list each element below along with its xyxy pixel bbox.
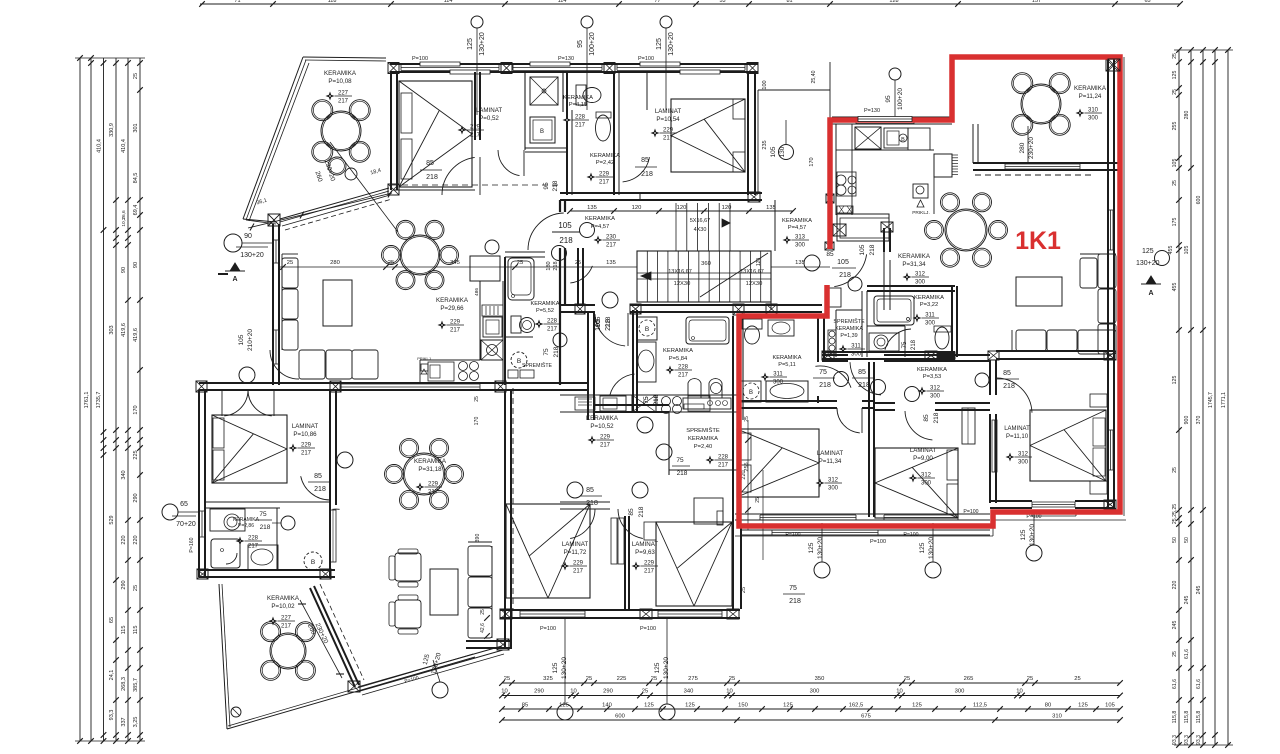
kitchen top wall 1K1 bbox=[832, 116, 952, 118]
post terrace-bl-1 bbox=[348, 681, 360, 692]
boiler B P511 bbox=[741, 381, 761, 402]
svg-text:218: 218 bbox=[553, 346, 560, 357]
vanity P584 bbox=[683, 398, 731, 409]
bath bl walls bbox=[205, 501, 280, 503]
svg-text:KERAMIKA: KERAMIKA bbox=[585, 216, 615, 222]
cab 1K1 bbox=[837, 206, 853, 213]
leader 125/130+20 n3 bbox=[660, 16, 672, 28]
svg-text:P=10,08: P=10,08 bbox=[328, 78, 352, 85]
svg-text:P=100: P=100 bbox=[785, 532, 800, 538]
shower 1K1 bbox=[874, 296, 914, 325]
svg-text:65: 65 bbox=[109, 617, 115, 623]
svg-text:229: 229 bbox=[600, 435, 611, 441]
svg-text:229: 229 bbox=[644, 561, 655, 567]
svg-text:228: 228 bbox=[547, 319, 558, 325]
svg-text:P=10,54: P=10,54 bbox=[656, 116, 680, 123]
svg-text:3,25: 3,25 bbox=[133, 717, 139, 728]
boiler B left bbox=[511, 352, 527, 368]
flooring 228/217 bath-left bbox=[535, 320, 544, 329]
east setback thin lines bbox=[758, 89, 830, 91]
stair outline bbox=[637, 251, 771, 302]
toilet left apt bbox=[511, 316, 521, 333]
prik 1K1 bbox=[913, 184, 928, 198]
svg-text:217: 217 bbox=[575, 123, 586, 129]
sink P511 bbox=[768, 320, 794, 336]
flooring 229/217 bc-living bbox=[416, 483, 425, 492]
svg-text:218: 218 bbox=[605, 316, 612, 327]
terrace bl diag wall bbox=[310, 588, 355, 687]
toilet bath-tm bbox=[576, 85, 586, 105]
svg-text:245: 245 bbox=[1184, 596, 1190, 605]
svg-text:419,6: 419,6 bbox=[133, 328, 139, 342]
svg-text:300: 300 bbox=[955, 689, 965, 695]
red outline 1K1 apartment bbox=[739, 57, 1120, 526]
svg-text:69,4: 69,4 bbox=[133, 205, 139, 216]
svg-text:114: 114 bbox=[444, 0, 453, 4]
dining table bc bbox=[403, 453, 445, 495]
svg-text:130+20: 130+20 bbox=[240, 252, 264, 259]
svg-text:120: 120 bbox=[632, 205, 642, 211]
window north 1 (P=100) bbox=[401, 64, 499, 66]
door bedA bbox=[837, 408, 860, 433]
svg-text:25: 25 bbox=[480, 609, 486, 615]
svg-text:P=160: P=160 bbox=[189, 537, 195, 552]
svg-text:P=2,86: P=2,86 bbox=[238, 523, 254, 529]
svg-text:135: 135 bbox=[606, 260, 616, 266]
svg-text:P=100: P=100 bbox=[540, 626, 556, 632]
wall bedA top bbox=[737, 400, 837, 402]
svg-text:KERAMIKA: KERAMIKA bbox=[414, 458, 447, 465]
svg-text:125: 125 bbox=[685, 703, 695, 709]
svg-text:KERAMIKA: KERAMIKA bbox=[531, 301, 560, 307]
flooring 229/217 bl-bed bbox=[289, 444, 298, 453]
svg-text:218: 218 bbox=[641, 171, 653, 178]
left dimension block bbox=[79, 58, 81, 741]
svg-text:90: 90 bbox=[244, 233, 252, 240]
dining table left apt bbox=[400, 235, 440, 275]
svg-text:61,6: 61,6 bbox=[1184, 649, 1190, 659]
svg-text:486: 486 bbox=[474, 288, 480, 296]
bed bedroom1 bbox=[399, 81, 472, 187]
sofa bl bbox=[468, 546, 492, 576]
coffee table left apt bbox=[323, 280, 352, 326]
svg-text:71: 71 bbox=[234, 0, 240, 4]
svg-text:218: 218 bbox=[260, 524, 271, 531]
svg-text:105: 105 bbox=[1105, 703, 1115, 709]
svg-text:P=9,00: P=9,00 bbox=[913, 455, 933, 462]
svg-text:325: 325 bbox=[543, 676, 553, 682]
svg-text:105: 105 bbox=[558, 221, 572, 230]
svg-text:225: 225 bbox=[617, 676, 627, 682]
svg-text:229: 229 bbox=[428, 482, 439, 488]
svg-text:410,4: 410,4 bbox=[121, 139, 127, 153]
svg-text:LAMINAT: LAMINAT bbox=[817, 450, 844, 457]
terrace bl window band bbox=[358, 646, 502, 687]
flooring 313/300 hall-right bbox=[783, 236, 792, 245]
flooring 230/217 hall-left bbox=[594, 236, 603, 245]
flooring 228/217 bc-spr bbox=[706, 456, 715, 465]
svg-text:53: 53 bbox=[719, 0, 725, 4]
svg-text:P=100: P=100 bbox=[412, 56, 428, 62]
svg-text:218: 218 bbox=[314, 486, 326, 493]
svg-text:100+20: 100+20 bbox=[897, 88, 904, 110]
svg-text:225: 225 bbox=[133, 450, 139, 459]
svg-text:228: 228 bbox=[678, 365, 689, 371]
flooring tag 227/217 terrace tl bbox=[326, 92, 335, 101]
svg-text:125: 125 bbox=[552, 662, 559, 673]
svg-text:303: 303 bbox=[109, 325, 115, 334]
svg-text:P=31,18: P=31,18 bbox=[418, 466, 442, 473]
svg-text:275: 275 bbox=[688, 676, 698, 682]
svg-text:85: 85 bbox=[628, 508, 635, 516]
svg-text:25: 25 bbox=[904, 676, 910, 682]
svg-text:LAMINAT: LAMINAT bbox=[632, 541, 659, 548]
svg-text:10: 10 bbox=[570, 689, 576, 695]
svg-text:100: 100 bbox=[762, 80, 768, 89]
west window bl bbox=[198, 511, 200, 537]
svg-text:280: 280 bbox=[1019, 142, 1026, 153]
svg-text:229: 229 bbox=[301, 443, 312, 449]
stair treads bbox=[646, 251, 648, 302]
svg-text:125: 125 bbox=[1078, 703, 1088, 709]
bath left walls bbox=[505, 251, 545, 253]
svg-text:KERAMIKA: KERAMIKA bbox=[782, 218, 812, 224]
svg-text:P=100: P=100 bbox=[870, 539, 886, 545]
svg-text:B: B bbox=[749, 390, 753, 396]
svg-text:125: 125 bbox=[1020, 529, 1027, 540]
svg-text:25: 25 bbox=[651, 676, 657, 682]
post bed2-ne bbox=[1104, 351, 1116, 360]
bedroom2-1k1 west wall bbox=[989, 360, 991, 395]
armchair bl-1 bbox=[395, 553, 421, 581]
svg-text:75: 75 bbox=[259, 511, 267, 518]
svg-text:217: 217 bbox=[678, 373, 689, 379]
svg-text:140: 140 bbox=[602, 703, 612, 709]
svg-text:229: 229 bbox=[599, 172, 610, 178]
leader door 1k1 entry bbox=[848, 277, 862, 291]
svg-text:300: 300 bbox=[921, 481, 932, 487]
bidet bath-tm bbox=[596, 115, 611, 141]
wall bc mid-h bbox=[560, 501, 610, 503]
svg-text:P=31,34: P=31,34 bbox=[902, 261, 926, 268]
svg-text:217: 217 bbox=[428, 490, 439, 496]
window north 3 (P=100) bbox=[617, 64, 745, 66]
svg-text:13X16,67: 13X16,67 bbox=[740, 269, 764, 275]
leader 95/100+20 1k1 bbox=[889, 68, 901, 80]
svg-text:217: 217 bbox=[281, 624, 292, 630]
svg-text:P=3,22: P=3,22 bbox=[920, 302, 939, 308]
flooring 227/217 terrace-bl bbox=[269, 617, 278, 626]
svg-text:385,7: 385,7 bbox=[133, 678, 139, 692]
svg-text:600: 600 bbox=[1196, 196, 1202, 205]
sofa left apt bbox=[282, 258, 298, 288]
svg-text:61,6: 61,6 bbox=[1172, 679, 1178, 689]
window north 2 (P=130) bbox=[513, 64, 602, 66]
svg-text:KERAMIKA: KERAMIKA bbox=[563, 95, 593, 101]
armchair bl-2 bbox=[395, 600, 421, 628]
svg-text:130+20: 130+20 bbox=[1029, 524, 1036, 546]
svg-text:114: 114 bbox=[558, 0, 567, 4]
svg-text:268,3: 268,3 bbox=[121, 677, 127, 691]
door bath-tm bbox=[498, 150, 520, 176]
svg-text:85: 85 bbox=[923, 414, 930, 422]
svg-text:370: 370 bbox=[1196, 416, 1202, 425]
svg-text:217: 217 bbox=[470, 133, 481, 139]
door bl bedroom bbox=[301, 476, 330, 500]
svg-text:455: 455 bbox=[1172, 283, 1178, 292]
svg-text:P=11,10: P=11,10 bbox=[1006, 434, 1029, 440]
post nw-2 bbox=[501, 63, 512, 74]
bath P584 top wall bbox=[630, 304, 736, 306]
svg-text:B: B bbox=[901, 137, 905, 143]
post terrace-tl bbox=[268, 214, 280, 226]
corridor walls center bbox=[587, 312, 589, 420]
door bedB bbox=[905, 411, 932, 440]
svg-text:KERAMIKA: KERAMIKA bbox=[688, 436, 718, 442]
hall bc walls bbox=[594, 404, 669, 406]
svg-text:B: B bbox=[540, 129, 544, 135]
tall unit 1K1 bbox=[934, 154, 952, 177]
post nw-1 bbox=[388, 63, 399, 74]
tub left apt bbox=[508, 258, 534, 300]
burners 1K1 bbox=[836, 175, 846, 185]
dining table 1K1 bbox=[945, 209, 987, 251]
shower bath-tm bbox=[530, 77, 558, 105]
svg-text:P=29,66: P=29,66 bbox=[440, 305, 464, 312]
svg-text:4X30: 4X30 bbox=[694, 227, 707, 233]
fridge 1K1 bbox=[908, 128, 930, 150]
wall 1K1 entry-east bbox=[883, 228, 885, 252]
svg-text:KERAMIKA: KERAMIKA bbox=[590, 153, 620, 159]
door left apt bath bbox=[570, 266, 592, 283]
svg-text:218: 218 bbox=[638, 506, 645, 517]
leader 95/100+20 n2 bbox=[581, 16, 593, 28]
svg-text:90: 90 bbox=[121, 267, 127, 273]
svg-text:P=5,84: P=5,84 bbox=[669, 356, 688, 362]
svg-text:300: 300 bbox=[773, 380, 784, 386]
flooring 312/300 bed1k1B bbox=[909, 474, 918, 483]
west wall apt-topleft bbox=[390, 72, 392, 190]
svg-text:25: 25 bbox=[1172, 467, 1178, 473]
svg-text:280: 280 bbox=[1184, 111, 1190, 120]
tub P584 bbox=[686, 317, 729, 344]
west wall living bbox=[272, 224, 274, 385]
red top-right corner post bbox=[1108, 59, 1120, 71]
terrace top-left window band bbox=[280, 188, 389, 219]
bc top structure bbox=[505, 382, 560, 384]
wall bl mid bbox=[329, 390, 331, 577]
svg-text:SPREMIŠTE: SPREMIŠTE bbox=[522, 362, 553, 369]
svg-text:61,6: 61,6 bbox=[1196, 679, 1202, 689]
svg-text:75: 75 bbox=[789, 585, 797, 592]
svg-text:25: 25 bbox=[504, 676, 510, 682]
svg-text:290: 290 bbox=[603, 689, 613, 695]
svg-text:255: 255 bbox=[1172, 122, 1178, 131]
coffee table bl bbox=[430, 569, 458, 615]
posts bc-south bbox=[500, 609, 512, 619]
svg-text:125: 125 bbox=[912, 703, 922, 709]
wall bedroom1 east bbox=[474, 72, 476, 140]
door bc bed2 bbox=[618, 509, 643, 539]
corner marker bl bbox=[231, 707, 241, 717]
terrace bl bottom edge bbox=[227, 657, 475, 729]
right dimension block bbox=[1178, 50, 1180, 745]
stove 1K1 bbox=[855, 127, 881, 149]
window bl-top bbox=[340, 383, 480, 385]
door corridor-living 1K1 bbox=[850, 362, 881, 395]
svg-text:P=0,52: P=0,52 bbox=[479, 115, 499, 122]
svg-text:290: 290 bbox=[133, 493, 139, 502]
svg-text:75: 75 bbox=[643, 396, 650, 404]
wall bedroom2 west-return bbox=[639, 193, 641, 200]
svg-text:218: 218 bbox=[839, 272, 851, 279]
mid dim line y267 bbox=[278, 266, 560, 268]
leader hall right door bbox=[804, 255, 820, 271]
svg-text:227: 227 bbox=[281, 616, 292, 622]
svg-text:65: 65 bbox=[1144, 0, 1150, 4]
bed bc-2 bbox=[656, 522, 732, 606]
svg-text:1K1: 1K1 bbox=[1015, 227, 1061, 255]
svg-text:130+20: 130+20 bbox=[928, 537, 935, 559]
svg-text:230+20: 230+20 bbox=[1028, 137, 1035, 159]
flooring 311/300 spr1k1 bbox=[839, 345, 848, 354]
svg-text:600: 600 bbox=[615, 714, 625, 720]
svg-text:10: 10 bbox=[1016, 689, 1022, 695]
svg-text:300: 300 bbox=[1088, 116, 1099, 122]
toilet bl bbox=[248, 545, 278, 570]
flooring 229/217 b2 bbox=[651, 129, 660, 138]
flooring 229/217 living-left bbox=[438, 321, 447, 330]
svg-text:85: 85 bbox=[586, 487, 594, 494]
svg-text:LAMINAT: LAMINAT bbox=[562, 541, 589, 548]
svg-text:75: 75 bbox=[902, 341, 908, 348]
svg-text:13X16,67: 13X16,67 bbox=[668, 269, 692, 275]
corridor bottom wall 1K1 bbox=[862, 400, 875, 402]
svg-text:135: 135 bbox=[587, 205, 597, 211]
svg-text:235: 235 bbox=[762, 140, 768, 149]
svg-text:300: 300 bbox=[1018, 460, 1029, 466]
svg-text:217: 217 bbox=[301, 451, 312, 457]
svg-text:170: 170 bbox=[809, 157, 815, 166]
hall right wall bbox=[774, 200, 776, 251]
svg-text:229: 229 bbox=[450, 320, 461, 326]
svg-text:75: 75 bbox=[676, 457, 684, 464]
terrace top-left table bbox=[321, 111, 361, 151]
svg-text:227: 227 bbox=[338, 91, 349, 97]
svg-text:175: 175 bbox=[1172, 218, 1178, 227]
svg-text:120: 120 bbox=[756, 258, 762, 267]
svg-text:5X16,67: 5X16,67 bbox=[690, 218, 711, 224]
svg-text:301: 301 bbox=[133, 123, 139, 132]
svg-text:210+20: 210+20 bbox=[247, 329, 254, 351]
svg-text:217: 217 bbox=[718, 463, 729, 469]
svg-text:25: 25 bbox=[744, 416, 750, 422]
svg-text:360: 360 bbox=[701, 261, 711, 267]
bottom dimension block bbox=[502, 682, 1120, 684]
svg-text:81: 81 bbox=[786, 0, 792, 4]
wall bed2 bottom bbox=[990, 500, 1032, 502]
svg-text:105: 105 bbox=[238, 334, 245, 345]
svg-text:25: 25 bbox=[1172, 89, 1178, 95]
leader 125/130+20 terrace-bl bbox=[432, 682, 448, 698]
stair upper flight bbox=[675, 203, 677, 251]
svg-text:115,8: 115,8 bbox=[1196, 711, 1202, 724]
svg-text:25: 25 bbox=[755, 497, 761, 503]
svg-text:P=100: P=100 bbox=[903, 532, 918, 538]
windows bc-south bbox=[520, 610, 585, 612]
flooring 228/217 P584 bbox=[666, 366, 675, 375]
svg-text:P=10,52: P=10,52 bbox=[590, 423, 614, 430]
svg-text:218: 218 bbox=[553, 261, 559, 270]
bed bc-1 bbox=[506, 504, 590, 598]
svg-text:10: 10 bbox=[726, 689, 732, 695]
svg-text:P=11,72: P=11,72 bbox=[564, 549, 587, 556]
svg-text:218: 218 bbox=[1003, 383, 1015, 390]
svg-text:220: 220 bbox=[1172, 581, 1178, 590]
svg-text:311: 311 bbox=[851, 344, 861, 350]
bath P511 east wall bbox=[817, 318, 819, 362]
door 1K1 kitchen bbox=[834, 254, 866, 286]
flooring 312/300 bed1k1b bbox=[1006, 453, 1015, 462]
svg-text:180: 180 bbox=[546, 261, 552, 270]
svg-text:217: 217 bbox=[248, 544, 259, 550]
svg-text:80: 80 bbox=[1045, 703, 1051, 709]
svg-text:25,25,25: 25,25,25 bbox=[1172, 504, 1178, 524]
leader stair door bbox=[602, 292, 618, 308]
terrace bl dash bbox=[320, 584, 364, 680]
svg-text:P=5,11: P=5,11 bbox=[778, 362, 795, 368]
svg-text:LAMINAT: LAMINAT bbox=[910, 447, 937, 454]
svg-text:419,6: 419,6 bbox=[121, 323, 127, 337]
svg-text:P=4,57: P=4,57 bbox=[788, 225, 807, 231]
flooring 310/300 terr-1k1 bbox=[1076, 109, 1085, 118]
wall below bath 1K1 bbox=[822, 351, 955, 353]
south wall bl bbox=[199, 569, 335, 571]
svg-text:130: 130 bbox=[779, 146, 786, 157]
svg-text:105: 105 bbox=[1184, 246, 1190, 255]
sofa 1K1 horizontal bbox=[1016, 330, 1046, 351]
kitchen left apt fixtures bbox=[482, 305, 503, 316]
svg-text:KERAMIKA: KERAMIKA bbox=[663, 348, 693, 354]
svg-text:25: 25 bbox=[1172, 53, 1178, 59]
svg-text:245: 245 bbox=[1196, 586, 1202, 595]
svg-text:25: 25 bbox=[474, 396, 480, 402]
svg-text:25: 25 bbox=[287, 260, 293, 266]
wall bc west bbox=[504, 390, 506, 648]
kitchen left apt counter bbox=[479, 281, 481, 360]
wardrobe bc bbox=[611, 518, 617, 564]
svg-text:PRIKLJ.: PRIKLJ. bbox=[912, 210, 930, 216]
wardrobe bedB bbox=[962, 408, 975, 444]
svg-text:162,5: 162,5 bbox=[849, 703, 864, 709]
svg-text:130+20: 130+20 bbox=[1136, 260, 1160, 267]
svg-text:B: B bbox=[517, 358, 521, 365]
post bed2-se bbox=[1104, 500, 1116, 509]
svg-text:120: 120 bbox=[722, 205, 732, 211]
bed bl bbox=[212, 415, 287, 483]
svg-text:300: 300 bbox=[915, 280, 926, 286]
svg-text:75: 75 bbox=[819, 369, 827, 376]
svg-text:105: 105 bbox=[859, 244, 866, 255]
svg-text:P=10,02: P=10,02 bbox=[271, 603, 295, 610]
svg-text:125: 125 bbox=[654, 662, 661, 673]
svg-text:220: 220 bbox=[121, 535, 127, 544]
wall y195 left apt bbox=[560, 192, 640, 194]
svg-text:P=100: P=100 bbox=[638, 56, 654, 62]
door bath P511 bbox=[815, 366, 851, 388]
svg-text:312: 312 bbox=[921, 473, 932, 479]
svg-text:217: 217 bbox=[338, 99, 349, 105]
